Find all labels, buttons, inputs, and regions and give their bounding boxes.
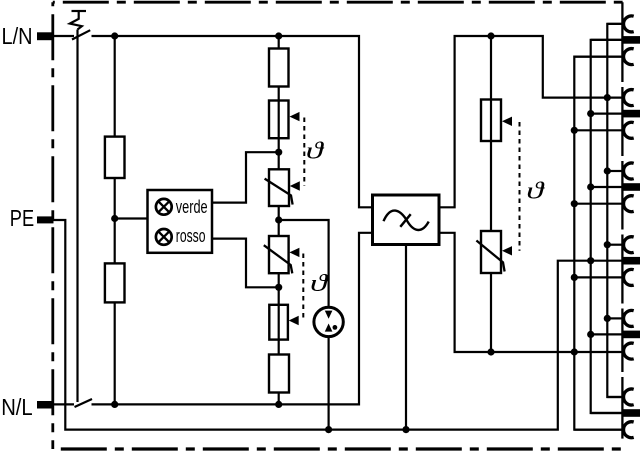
socket X3 N contact bbox=[624, 196, 634, 212]
wire PE contact X6 bbox=[591, 412, 622, 414]
socket X6 L contact bbox=[624, 389, 634, 405]
thermal coupling link RV2-F2 bbox=[302, 254, 304, 321]
enclosure border left bbox=[51, 2, 54, 449]
terminal L/N bbox=[37, 32, 54, 40]
junction N X3 on bus B bbox=[571, 200, 578, 207]
contact bus D (protected L) bbox=[607, 24, 622, 397]
label theta 1 bbox=[306, 137, 326, 164]
node lamp box tap bbox=[111, 215, 118, 222]
lamp LA1 (verde) bbox=[156, 199, 172, 215]
svg-text:verde: verde bbox=[176, 197, 208, 217]
filter U1 symbol (crossed sine) bbox=[384, 211, 429, 230]
wire N contact X4 bbox=[574, 276, 622, 278]
wire PE contact X5 bbox=[591, 333, 622, 335]
wire L contact X5 bbox=[607, 317, 622, 319]
socket X6 N contact bbox=[624, 422, 634, 438]
node C (RV1/RV2, to spark gap) bbox=[275, 216, 282, 223]
svg-text:L/N: L/N bbox=[2, 23, 33, 49]
filter U1 outline bbox=[373, 195, 440, 245]
resistor R1 bbox=[269, 49, 289, 87]
contact bus C (PE) bbox=[591, 40, 622, 413]
thermal coupling link F3-RV3 bbox=[519, 122, 521, 251]
node B (RV2/F2, rosso tap) bbox=[275, 284, 282, 291]
terminal PE bbox=[37, 216, 54, 223]
thermal coupling arrow at RV2 bbox=[289, 248, 299, 257]
junction filter PE on PE bus bbox=[402, 426, 409, 433]
wire branch from node L' bbox=[490, 36, 492, 101]
wire RV3 to node N' bbox=[490, 273, 492, 352]
socket X3 PE contact bbox=[623, 183, 640, 191]
fuse F1 bbox=[269, 101, 289, 139]
resistor R4 bbox=[105, 263, 125, 302]
label theta 3 bbox=[526, 178, 546, 205]
socket X3 L contact bbox=[624, 163, 634, 179]
wire L contact X6 bbox=[607, 396, 622, 398]
resistor R2 bbox=[269, 355, 289, 393]
varistor RV2 bbox=[264, 236, 293, 273]
wire L contact X3 bbox=[607, 170, 622, 172]
junction PE X3 on bus C bbox=[587, 183, 594, 190]
junction L X3 on bus D bbox=[604, 167, 611, 174]
wire filter output N bbox=[439, 233, 622, 352]
svg-text:N/L: N/L bbox=[1, 394, 32, 420]
wire node C to spark gap FV1 bbox=[279, 220, 329, 307]
socket X1 N contact bbox=[624, 49, 634, 65]
svg-text:ϑ: ϑ bbox=[310, 270, 330, 297]
switch S1 actuator link bbox=[76, 30, 78, 403]
thermal release element of S1 bbox=[70, 11, 86, 30]
thermal coupling arrow at RV1 bbox=[290, 181, 300, 190]
node N/L at surge column bbox=[275, 401, 282, 408]
wire N contact X3 bbox=[574, 203, 622, 205]
socket X4 PE contact bbox=[623, 257, 640, 265]
socket X5 L contact bbox=[624, 310, 634, 326]
node A (F1/RV1, verde tap) bbox=[275, 149, 282, 156]
svg-text:PE: PE bbox=[10, 205, 34, 231]
junction protected N on contact bus B bbox=[571, 348, 578, 355]
socket X5 PE contact bbox=[623, 331, 640, 339]
socket X1 PE contact bbox=[623, 36, 640, 44]
wire N/L bus to filter input N bbox=[92, 233, 373, 405]
resistor R3 bbox=[105, 137, 125, 178]
junction PE X5 on bus C bbox=[587, 331, 594, 338]
socket X4 L contact bbox=[624, 237, 634, 253]
wire surge column bbox=[278, 36, 280, 404]
wire filter U1 to PE bus bbox=[405, 245, 407, 430]
svg-text:ϑ: ϑ bbox=[306, 137, 326, 164]
socket X4 N contact bbox=[624, 269, 634, 285]
label theta 2 bbox=[310, 270, 330, 297]
socket X2 L contact bbox=[624, 90, 634, 106]
socket X5 N contact bbox=[624, 343, 634, 359]
thermal coupling arrow at F2 bbox=[289, 316, 299, 325]
socket X2 N contact bbox=[624, 122, 634, 138]
junction protected L on contact bus D bbox=[604, 94, 611, 101]
label PE bbox=[10, 205, 34, 231]
junction L X4 on bus D bbox=[604, 241, 611, 248]
label N/L bbox=[1, 394, 32, 420]
switch S1 blade (N pole) bbox=[75, 399, 93, 407]
spark gap FV1 (GDT with radioactive dot) bbox=[314, 307, 343, 336]
indicator box outline bbox=[148, 190, 213, 253]
svg-text:rosso: rosso bbox=[176, 226, 206, 246]
wire L/N terminal to switch S1 bbox=[54, 35, 74, 37]
node L/N at left divider bbox=[111, 32, 118, 39]
label verde bbox=[176, 197, 208, 217]
wire PE contact X1 bbox=[591, 39, 622, 41]
enclosure border top bbox=[53, 1, 623, 4]
wire L contact X4 bbox=[607, 244, 622, 246]
socket X2 PE contact bbox=[623, 110, 640, 118]
thermal coupling link F1-RV1 bbox=[303, 118, 305, 187]
node filter N output / surge branch bbox=[487, 348, 494, 355]
fuse F2 bbox=[269, 305, 288, 340]
node N/L at left divider bbox=[111, 401, 118, 408]
socket X6 PE contact bbox=[623, 409, 640, 417]
wire tap to lamp box bbox=[115, 217, 148, 219]
wire spark gap FV1 to PE bus bbox=[328, 337, 330, 430]
contact bus B (protected N) bbox=[574, 57, 622, 430]
wire N/L terminal to switch S1 bbox=[54, 403, 74, 405]
junction PE X2 on bus C bbox=[587, 110, 594, 117]
label rosso bbox=[176, 226, 206, 246]
junction PE feed on contact bus C bbox=[587, 257, 594, 264]
switch S1 blade (L pole) bbox=[72, 30, 90, 39]
junction L X5 on bus D bbox=[604, 315, 611, 322]
wire N contact X2 bbox=[574, 129, 622, 131]
wire N contact X1 bbox=[574, 55, 622, 57]
wire lamp LA2 to node B bbox=[212, 239, 279, 288]
thermal coupling arrow at RV3 bbox=[502, 246, 512, 255]
junction FV1 on PE bus bbox=[325, 426, 332, 433]
wire F3 to RV3 bbox=[490, 141, 492, 232]
wire L/N bus to filter input L bbox=[92, 36, 373, 207]
socket X1 L contact bbox=[624, 16, 634, 32]
wire L contact X1 bbox=[607, 23, 622, 25]
wire filter output L bbox=[439, 36, 622, 207]
junction N X2 on bus B bbox=[571, 127, 578, 134]
enclosure border bottom bbox=[53, 447, 623, 450]
label L/N bbox=[2, 23, 33, 49]
svg-text:ϑ: ϑ bbox=[526, 178, 546, 205]
node filter L output / surge branch bbox=[487, 32, 494, 39]
fuse F3 bbox=[481, 100, 501, 142]
varistor RV1 bbox=[265, 169, 293, 206]
enclosure border right (socket spine) bbox=[621, 2, 623, 438]
wire PE terminal to PE bus bbox=[53, 220, 622, 430]
wire PE contact X2 bbox=[591, 112, 622, 114]
wire lamp LA1 to node A bbox=[212, 152, 279, 202]
wire left divider column bbox=[114, 36, 116, 404]
thermal coupling arrow at F3 bbox=[502, 117, 512, 126]
lamp LA2 (rosso) bbox=[156, 229, 172, 245]
thermal coupling arrow at F1 bbox=[290, 112, 300, 121]
terminal N/L bbox=[37, 401, 54, 409]
node L/N at surge column bbox=[275, 32, 282, 39]
junction N X4 on bus B bbox=[571, 274, 578, 281]
wire PE contact X3 bbox=[591, 186, 622, 188]
varistor RV3 bbox=[476, 231, 504, 273]
wire N contact X6 bbox=[574, 429, 622, 431]
